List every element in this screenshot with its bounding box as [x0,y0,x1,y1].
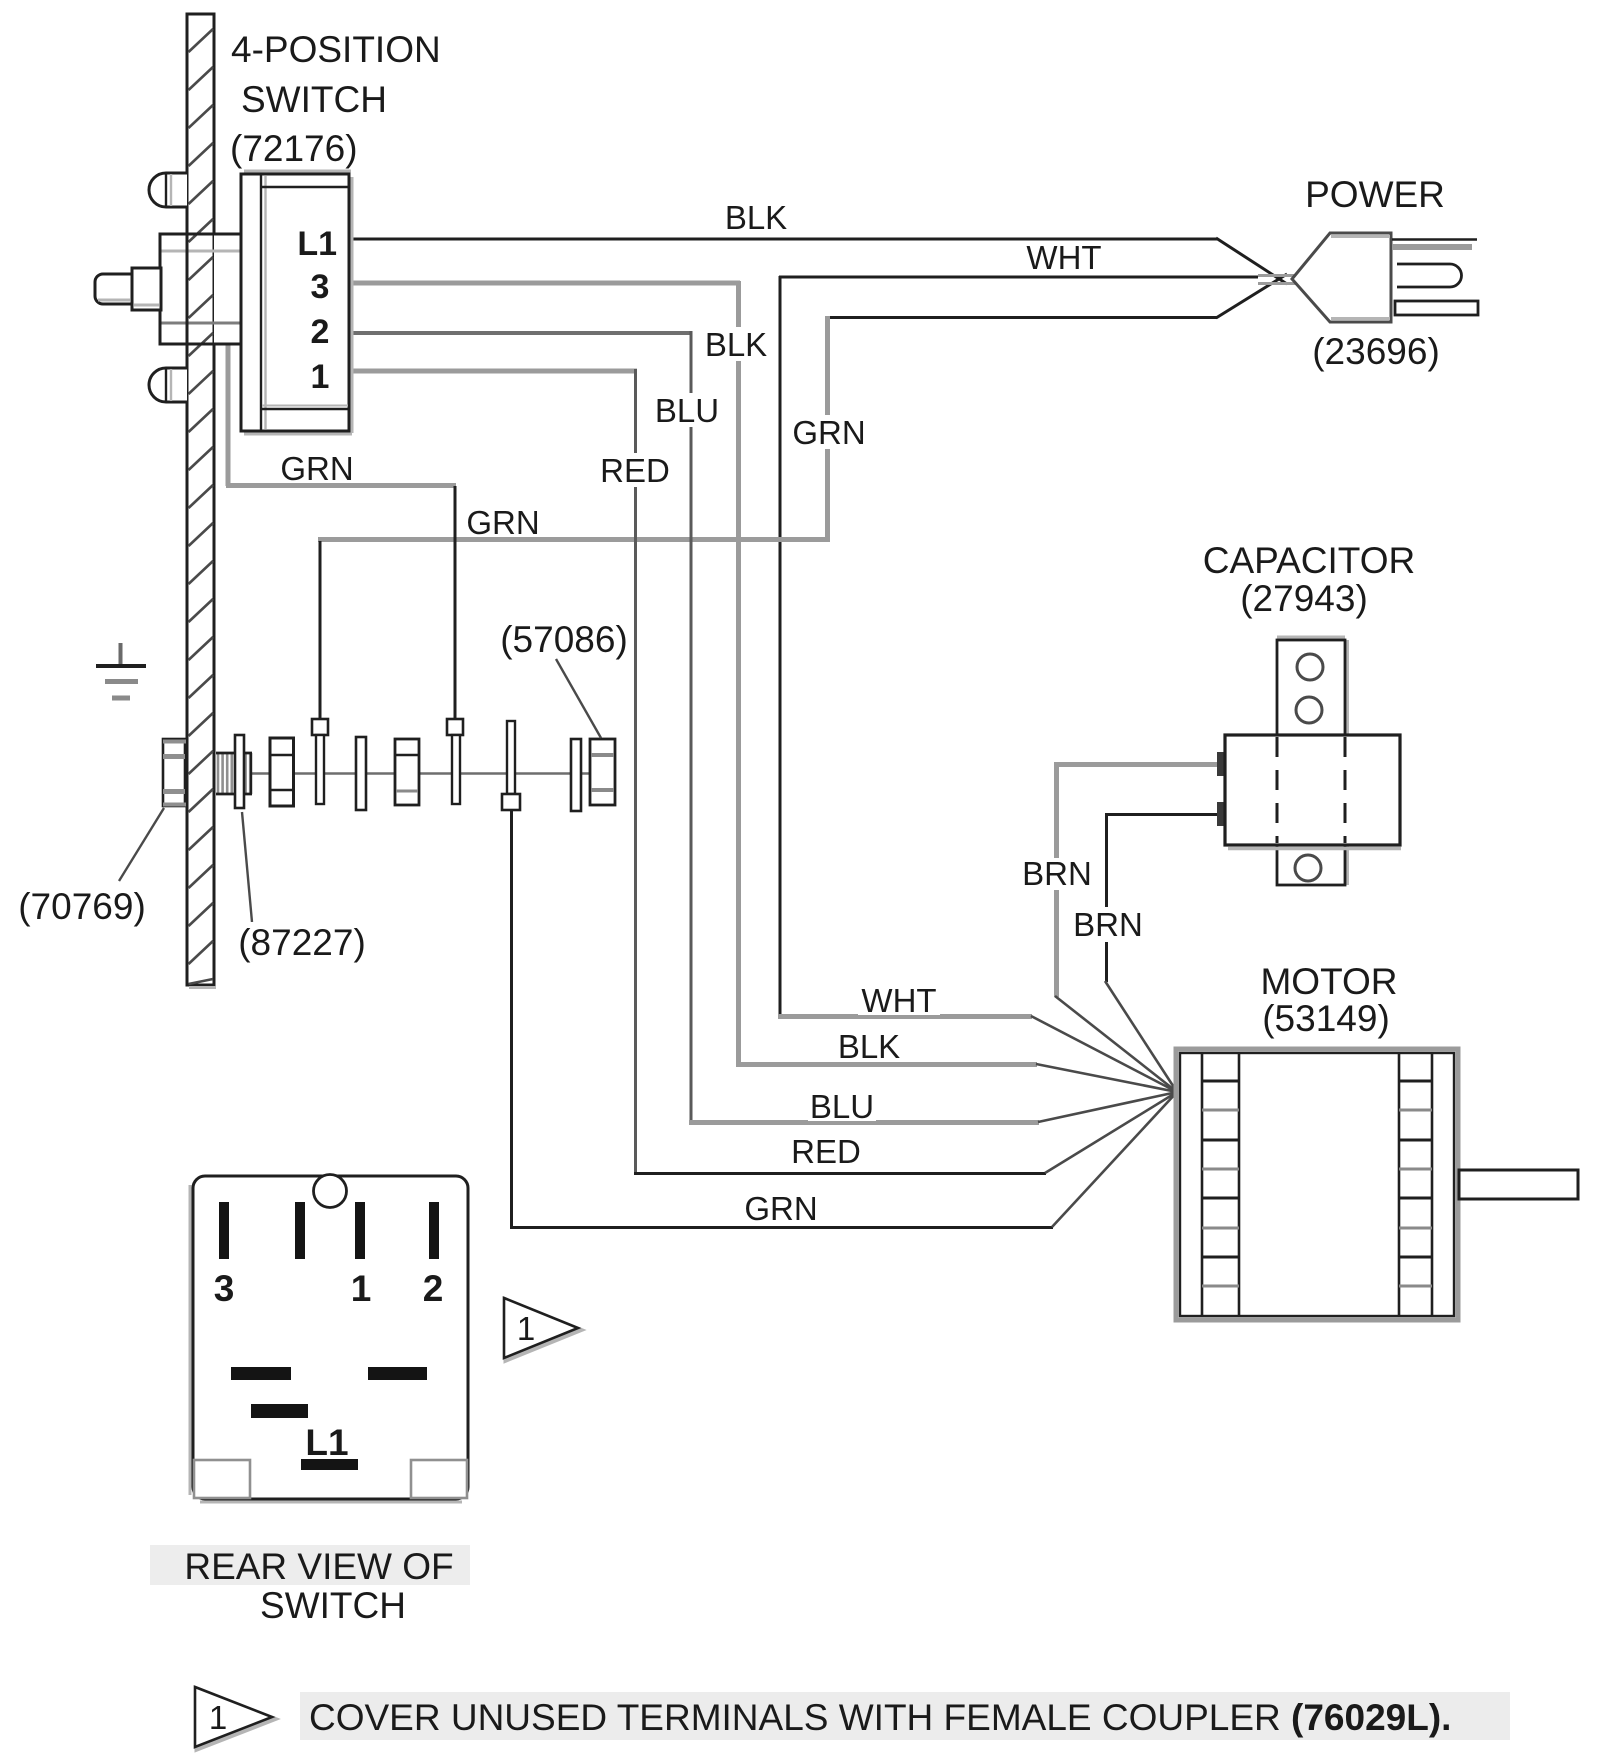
svg-text:WHT: WHT [1026,239,1101,276]
shaft pin A (green wire up) [312,719,328,804]
svg-text:MOTOR: MOTOR [1260,961,1397,1002]
wire label BRN (lower) [1072,906,1144,943]
bottom note text [300,1692,1510,1740]
wire BRN: capacitor lower terminal to motor [1105,813,1222,1092]
wire BLU: switch terminal 2 to motor [349,331,1177,1123]
svg-text:(87227): (87227) [238,922,366,963]
shaft center line [243,772,612,775]
washer (87227) [235,735,244,808]
wire label RED (terminal 1) [598,452,672,489]
svg-text:COVER UNUSED TERMINALS WITH FE: COVER UNUSED TERMINALS WITH FEMALE COUPL… [309,1697,1451,1738]
wall mounting panel (hatched) [187,14,216,988]
capacitor body [1225,735,1401,849]
power plug P1 (23696) [1258,233,1478,322]
svg-text:GRN: GRN [280,450,353,487]
svg-text:L1: L1 [297,225,337,263]
mounting nut (70769) [163,739,186,806]
svg-text:3: 3 [214,1268,235,1309]
wire label BRN (upper) [1021,855,1093,892]
plug prong top [1392,238,1477,241]
svg-text:(23696): (23696) [1312,331,1440,372]
motor winding left [1202,1053,1239,1316]
shaft pin E (green wire down) [502,721,520,810]
svg-text:BLU: BLU [655,392,719,429]
leader line for (70769) [119,808,164,881]
rear view terminal slot 2 [429,1202,439,1259]
wire label BLU (terminal 2) [650,392,724,429]
part number (87227) [236,922,368,963]
motor M1 (53149) body [1176,1049,1458,1320]
svg-text:1: 1 [311,358,330,396]
svg-text:(57086): (57086) [500,619,628,660]
svg-text:(27943): (27943) [1240,578,1368,619]
rear view slot lower [251,1404,308,1418]
motor shaft [1459,1170,1578,1199]
svg-text:GRN: GRN [466,504,539,541]
svg-text:BLK: BLK [838,1028,900,1065]
ground [96,643,146,698]
svg-text:GRN: GRN [792,414,865,451]
leader line for (57086) [556,659,601,738]
threaded bushing through wall [216,752,252,795]
capacitor C1 (27943) bracket [1277,638,1348,886]
wire BRN: capacitor upper terminal to motor [1054,762,1222,1092]
capacitor bracket hole 3 [1295,855,1321,881]
svg-text:CAPACITOR: CAPACITOR [1203,540,1415,581]
spool spacer C [395,739,419,805]
wire label BLU (motor) [808,1088,876,1125]
wire label GRN (motor) [742,1190,820,1227]
note flag triangle 2 (bottom note) [195,1687,274,1749]
svg-text:1: 1 [351,1268,372,1309]
wire BLK: switch L1 to power plug [349,238,1287,284]
capacitor terminal tab lower [1217,802,1225,826]
part number (70769) [14,884,152,927]
caption REAR VIEW OF [150,1545,470,1585]
shaft pin D (green wire up) [447,719,463,804]
svg-text:BLK: BLK [725,199,787,236]
wire label BLK (motor) [835,1028,903,1065]
switch mounting clip top (on wall) [149,173,187,207]
wire label BLK (top) [722,199,792,236]
capacitor bracket hole 2 [1296,697,1322,723]
svg-text:POWER: POWER [1305,174,1445,215]
svg-text:(72176): (72176) [230,128,358,169]
svg-text:WHT: WHT [861,982,936,1019]
rear view corner notch left [194,1460,250,1498]
plug prong bottom [1395,301,1478,315]
svg-text:BLU: BLU [810,1088,874,1125]
svg-text:REAR VIEW OF: REAR VIEW OF [184,1546,453,1587]
capacitor terminal tab upper [1217,752,1225,776]
wire label GRN (switch mount) [280,450,354,487]
wire RED: switch terminal 1 to motor [349,369,1177,1174]
rear view corner notch right [411,1460,467,1498]
wire label WHT (motor) [858,982,940,1019]
end bushing (57086) [590,739,615,805]
wire label WHT (top) [1026,239,1102,276]
plug prong middle (round) [1397,264,1462,287]
svg-text:(53149): (53149) [1262,998,1390,1039]
svg-text:BRN: BRN [1022,855,1092,892]
svg-text:1: 1 [517,1310,535,1347]
svg-text:RED: RED [791,1133,861,1170]
4-position switch U1 body [241,171,352,434]
svg-text:SWITCH: SWITCH [241,79,387,120]
rear view locating notch circle [314,1175,347,1208]
wire GRN: plug green lead down to shaft pin and grounding [318,274,1287,719]
wire label GRN (long run) [466,504,539,541]
svg-text:BLK: BLK [705,326,767,363]
switch push-button shaft tip [95,274,132,304]
svg-text:4-POSITION: 4-POSITION [231,29,441,70]
switch mounting clip bottom (on wall) [149,368,187,402]
wire label GRN (to plug) [792,414,865,451]
rear view terminal slot (unused) [295,1202,305,1259]
svg-text:RED: RED [600,452,670,489]
rear view terminal slot 3 [219,1202,229,1259]
thin washer F [571,739,581,811]
rear view slot right middle [368,1367,427,1380]
wire WHT: power plug to motor [778,276,1258,1092]
wire GRN: switch mount to shaft pin (second green) [226,345,456,719]
switch shaft bushing through wall [160,234,241,344]
part number (57086) [498,619,630,660]
wire label BLK (terminal 3) [701,326,771,363]
svg-text:BRN: BRN [1073,906,1143,943]
thin washer B [356,737,366,810]
svg-text:1: 1 [209,1699,227,1736]
svg-text:2: 2 [311,313,330,351]
svg-text:SWITCH: SWITCH [260,1585,406,1626]
rear view terminal slot 1 [355,1202,365,1259]
svg-text:2: 2 [423,1268,444,1309]
rear view slot left middle [231,1367,291,1380]
wire GRN: shaft pin to motor (bottom green) [510,808,1177,1228]
svg-text:L1: L1 [305,1422,348,1463]
switch shaft collar [132,268,161,310]
wire BLK: switch terminal 3 to motor [349,281,1177,1092]
wire label RED (motor) [790,1133,862,1170]
rear view L1 terminal bar [301,1459,358,1470]
svg-text:(70769): (70769) [18,886,146,927]
svg-text:3: 3 [311,268,330,306]
svg-text:GRN: GRN [744,1190,817,1227]
spacer sleeve [270,738,294,806]
capacitor bracket hole 1 [1297,654,1323,680]
motor winding right [1399,1053,1432,1316]
note flag triangle 1 (beside rear view) [504,1298,580,1360]
rear view of switch body [190,1176,468,1502]
leader line for (87227) [242,812,252,922]
